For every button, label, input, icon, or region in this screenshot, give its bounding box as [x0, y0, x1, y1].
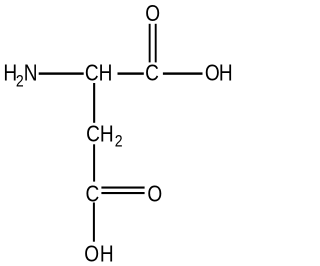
- bond CH-CH2 (single, vertical): [93, 83, 95, 123]
- double bond C=O (bottom, horizontal): [101, 187, 144, 195]
- svg-text:C: C: [86, 182, 100, 207]
- bond CH2-C (single, vertical): [93, 144, 95, 181]
- bond CH-C (single, horizontal): [118, 72, 144, 74]
- svg-text:C: C: [145, 61, 159, 86]
- bond C-OH (single, horizontal): [163, 72, 203, 74]
- svg-text:CH: CH: [85, 61, 113, 86]
- bond C-OH (bottom, vertical): [93, 203, 95, 242]
- svg-text:O: O: [145, 2, 160, 27]
- svg-text:O: O: [147, 182, 162, 207]
- svg-text:OH: OH: [84, 242, 113, 266]
- bond N-CH (single, horizontal): [39, 72, 84, 74]
- double bond C=O (top, vertical): [149, 24, 157, 63]
- svg-text:OH: OH: [205, 61, 233, 86]
